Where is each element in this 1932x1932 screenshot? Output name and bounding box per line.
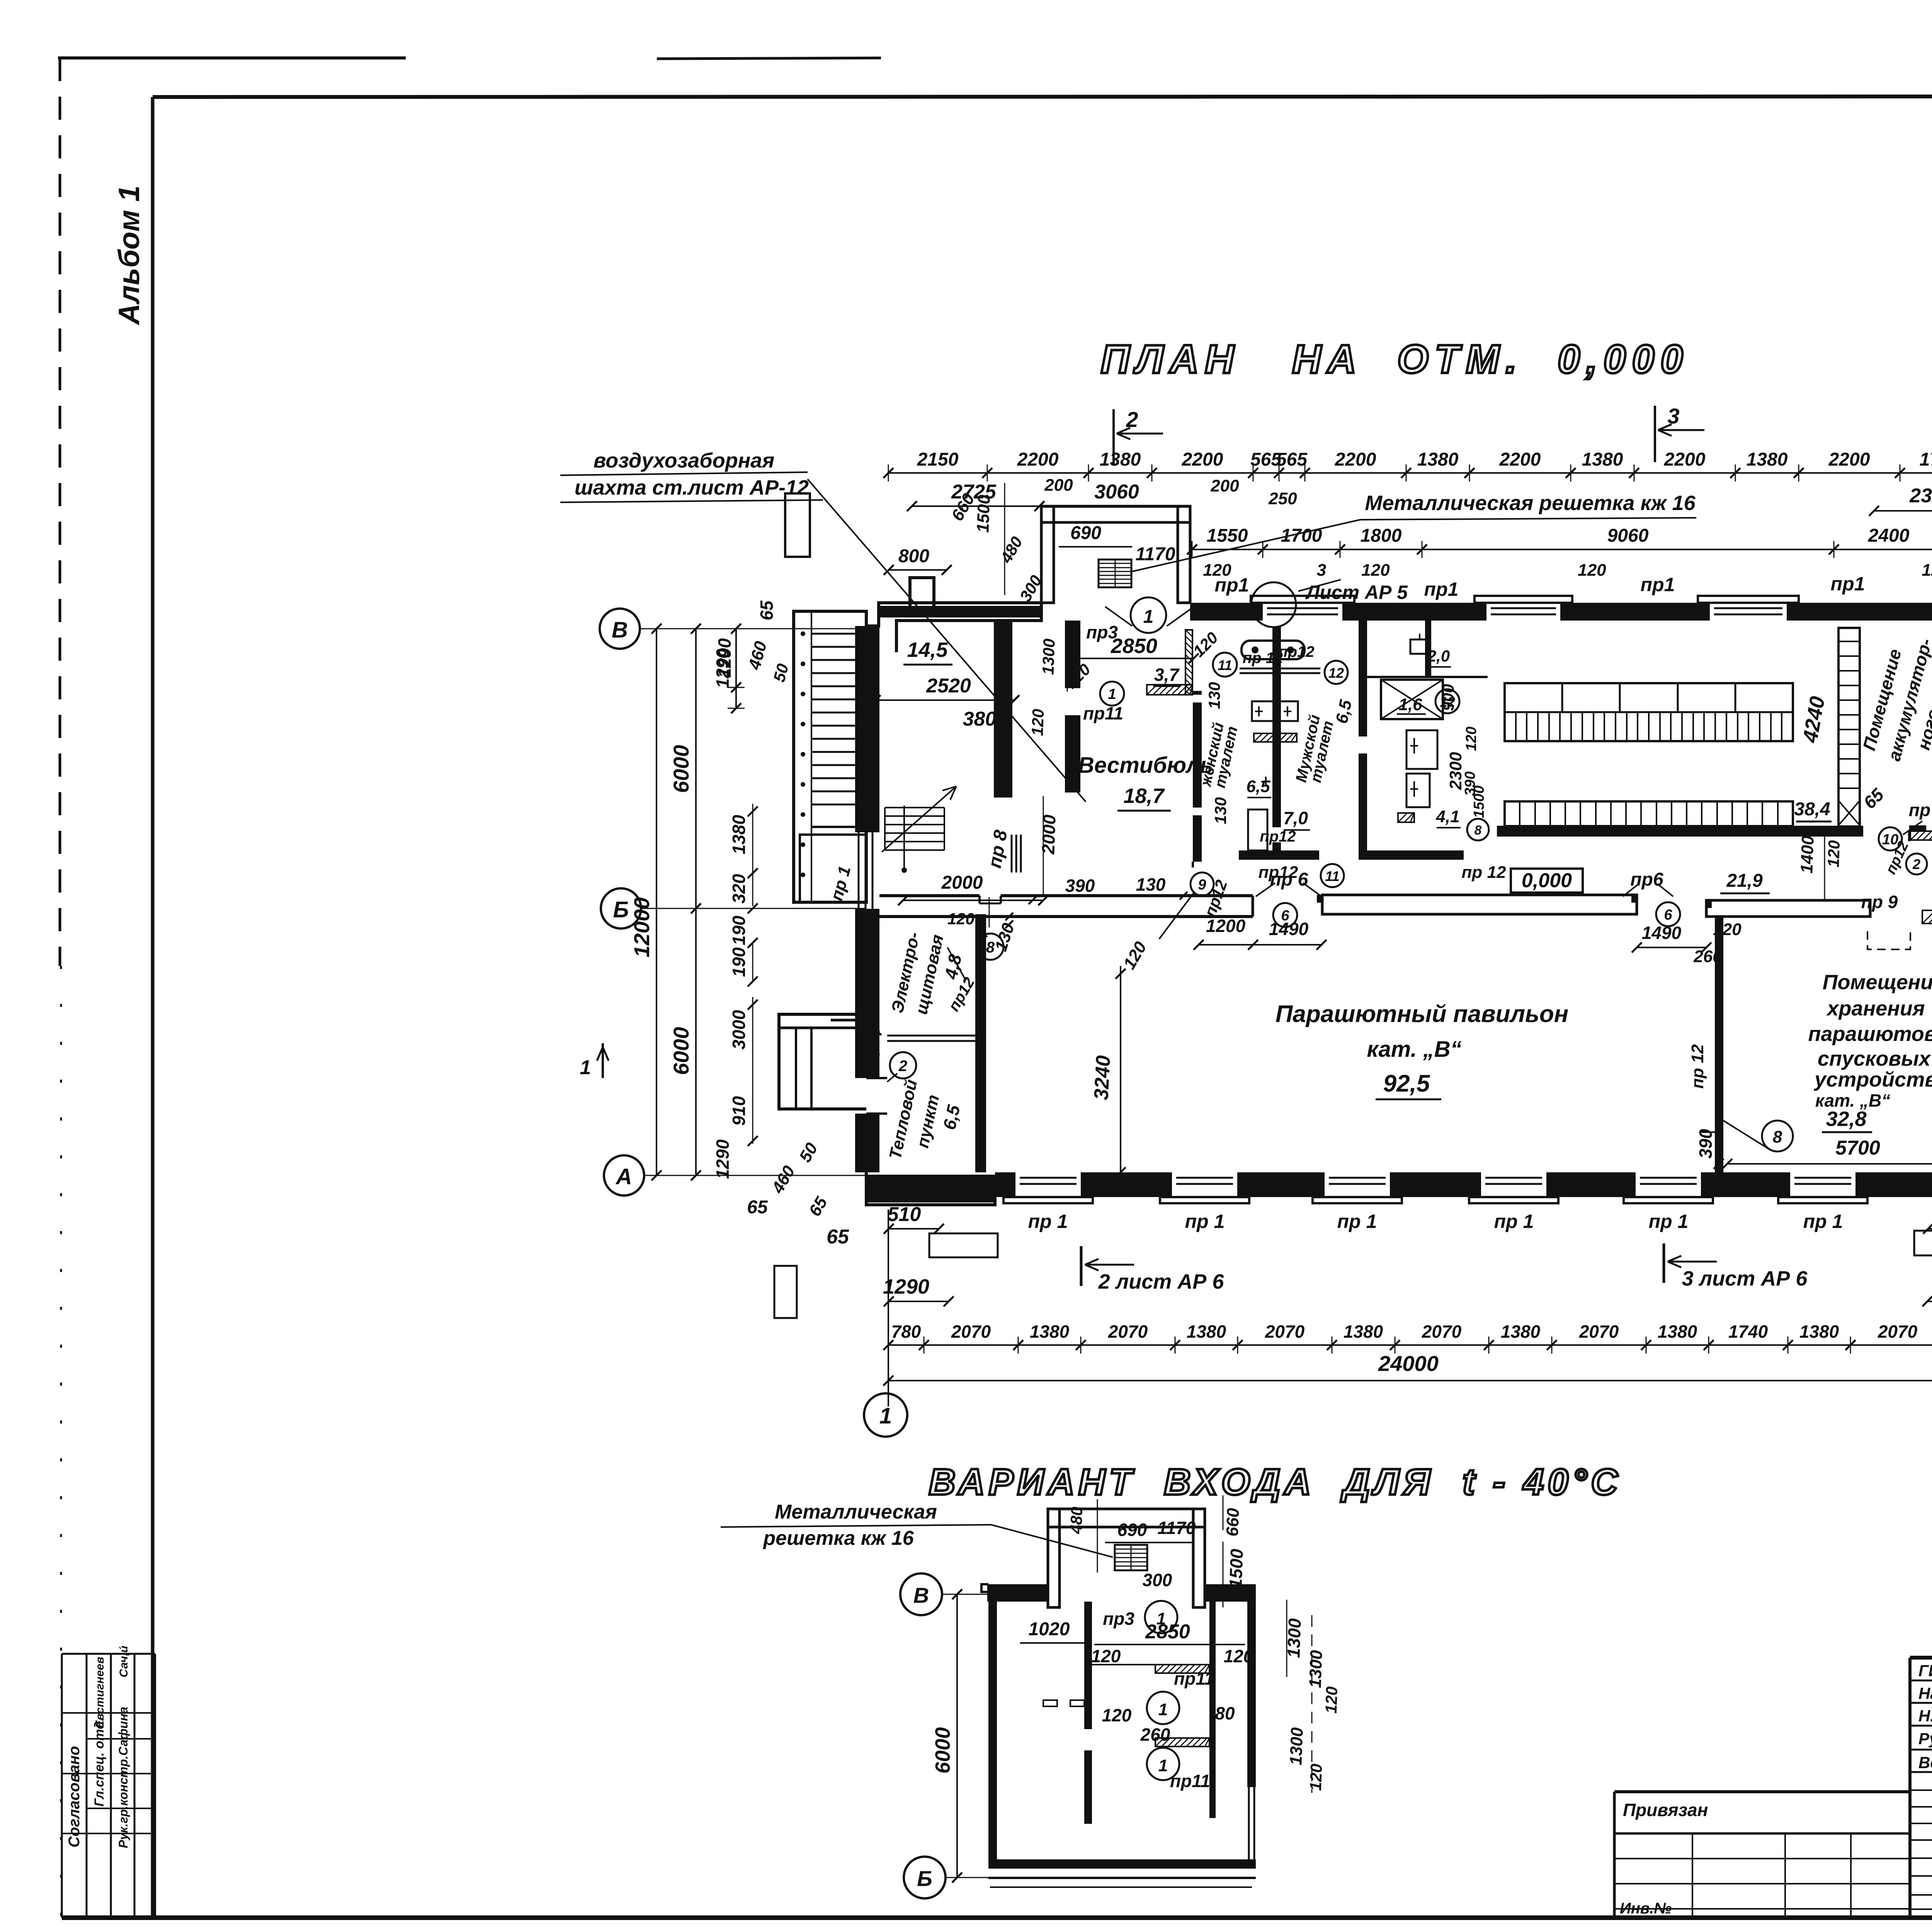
svg-text:1170: 1170 [1135,544,1175,565]
svg-text:устройств: устройств [1813,1068,1932,1091]
svg-text:120: 120 [1091,1646,1121,1666]
svg-text:3240: 3240 [1090,1055,1115,1101]
svg-text:Вестибюль: Вестибюль [1078,753,1213,778]
svg-text:2000: 2000 [941,872,983,893]
svg-text:1800: 1800 [1361,526,1402,546]
svg-text:1290: 1290 [883,1275,929,1298]
svg-text:390: 390 [1065,876,1095,896]
svg-text:190: 190 [729,947,749,977]
svg-text:1380: 1380 [1658,1321,1697,1342]
svg-text:120: 120 [1028,709,1047,736]
svg-text:ГИП: ГИП [1918,1662,1932,1680]
svg-text:1,6: 1,6 [1398,695,1422,714]
svg-text:2325: 2325 [1909,485,1932,507]
svg-text:1500: 1500 [1471,786,1487,818]
svg-text:120: 120 [1463,726,1480,751]
svg-text:1290: 1290 [713,1139,733,1179]
svg-text:9060: 9060 [1607,526,1649,546]
svg-text:2200: 2200 [1499,449,1541,470]
svg-text:пр 1: пр 1 [1494,1211,1534,1232]
svg-text:660: 660 [1223,1507,1243,1537]
svg-text:130: 130 [1211,797,1230,824]
svg-text:1750: 1750 [1920,449,1932,470]
svg-text:решетка кж 16: решетка кж 16 [762,1527,914,1549]
svg-text:190: 190 [729,915,749,945]
svg-text:800: 800 [898,546,929,566]
svg-text:1380: 1380 [1747,449,1788,470]
svg-text:11: 11 [1325,868,1339,884]
svg-text:6: 6 [1664,907,1672,923]
svg-text:1020: 1020 [1029,1619,1070,1639]
svg-text:Рук.гр.констр.Сафина: Рук.гр.констр.Сафина [116,1707,130,1848]
svg-text:120: 120 [1361,561,1390,580]
svg-text:парашютов и: парашютов и [1808,1022,1932,1046]
svg-text:6,5: 6,5 [1246,777,1270,796]
svg-text:480: 480 [1067,1507,1086,1535]
svg-text:900: 900 [1439,684,1457,711]
svg-text:1: 1 [1143,607,1154,627]
svg-text:780: 780 [891,1321,921,1342]
svg-text:1380: 1380 [1187,1321,1226,1342]
svg-text:Помещение: Помещение [1823,971,1932,994]
svg-text:Нач.отд.: Нач.отд. [1918,1684,1932,1702]
svg-text:2000: 2000 [1038,814,1060,855]
svg-text:65: 65 [827,1226,849,1248]
svg-text:ВАРИАНТ ВХОДА ДЛЯ t - 40°C: ВАРИАНТ ВХОДА ДЛЯ t - 40°C [929,1461,1622,1503]
svg-text:12000: 12000 [629,897,654,957]
svg-text:Привязан: Привязан [1623,1800,1708,1820]
svg-text:пр 1: пр 1 [1803,1211,1843,1232]
svg-text:120: 120 [1102,1705,1132,1725]
svg-text:120: 120 [1203,561,1231,580]
svg-text:кат. „В“: кат. „В“ [1367,1037,1461,1062]
svg-text:2 лист АР 6: 2 лист АР 6 [1098,1270,1225,1293]
svg-text:пр3: пр3 [1103,1609,1134,1629]
svg-text:1380: 1380 [1582,449,1623,470]
svg-text:ПЛАН НА ОТМ. 0,000: ПЛАН НА ОТМ. 0,000 [1101,337,1689,382]
svg-text:Б: Б [613,897,629,922]
svg-text:0,000: 0,000 [1522,869,1572,892]
svg-text:Инв.№: Инв.№ [1620,1900,1672,1917]
svg-text:5700: 5700 [1835,1137,1880,1159]
svg-text:8: 8 [1475,823,1482,838]
svg-text:130: 130 [1136,874,1166,895]
svg-text:1700: 1700 [1281,526,1322,546]
svg-text:2070: 2070 [1878,1321,1918,1342]
svg-text:Альбом 1: Альбом 1 [113,185,146,325]
svg-text:хранения: хранения [1826,997,1925,1020]
svg-text:2: 2 [1126,407,1138,432]
svg-text:910: 910 [729,1096,749,1126]
svg-text:12: 12 [1328,665,1344,681]
svg-text:1380: 1380 [1417,449,1459,470]
svg-text:пр12: пр12 [1278,643,1314,660]
svg-text:260: 260 [1140,1725,1170,1745]
svg-text:2200: 2200 [1828,449,1870,470]
svg-text:2150: 2150 [917,449,959,470]
svg-text:Металлическая решетка кж 16: Металлическая решетка кж 16 [1365,492,1696,515]
svg-text:Согласовано: Согласовано [66,1746,83,1848]
svg-text:2200: 2200 [1017,449,1059,470]
svg-text:1: 1 [1156,1609,1166,1628]
svg-text:Н.контр.: Н.контр. [1918,1707,1932,1725]
svg-text:4,1: 4,1 [1435,807,1459,826]
svg-text:120: 120 [947,910,975,928]
svg-text:200: 200 [1044,476,1073,495]
svg-text:2400: 2400 [1868,526,1910,546]
svg-text:1380: 1380 [1100,449,1141,470]
svg-text:В: В [913,1583,929,1607]
svg-text:120: 120 [1922,561,1932,580]
svg-text:Евстигнеев: Евстигнеев [94,1657,106,1728]
svg-text:120: 120 [1578,561,1606,580]
svg-text:1: 1 [1158,1700,1168,1719]
svg-text:3 лист АР 6: 3 лист АР 6 [1682,1267,1808,1290]
svg-text:2200: 2200 [1182,449,1223,470]
svg-text:1300: 1300 [1039,638,1058,675]
svg-text:1550: 1550 [1207,526,1248,546]
svg-text:3060: 3060 [1094,481,1139,503]
svg-text:2200: 2200 [1664,449,1706,470]
svg-text:пр 1: пр 1 [1028,1211,1068,1232]
svg-text:690: 690 [1070,523,1101,543]
svg-text:21,9: 21,9 [1726,871,1763,891]
svg-text:1380: 1380 [1030,1321,1070,1342]
svg-text:1300: 1300 [1306,1650,1326,1688]
svg-text:65: 65 [757,600,777,621]
svg-text:80: 80 [1215,1703,1235,1723]
svg-text:130: 130 [1205,682,1223,709]
svg-text:8: 8 [1773,1128,1782,1146]
svg-text:11: 11 [1218,657,1232,673]
svg-text:2070: 2070 [1265,1321,1305,1342]
svg-text:пр1: пр1 [1641,574,1675,595]
svg-text:1200: 1200 [1206,916,1246,936]
svg-text:7,0: 7,0 [1283,808,1308,828]
svg-text:200: 200 [1210,476,1239,495]
svg-text:1: 1 [1108,686,1116,702]
svg-text:2: 2 [898,1058,907,1075]
svg-text:пр 12: пр 12 [1688,1044,1707,1088]
svg-text:320: 320 [729,874,749,903]
svg-text:Металлическая: Металлическая [775,1501,937,1523]
svg-text:565: 565 [1276,449,1308,470]
svg-text:2: 2 [1912,856,1920,872]
svg-text:Рук.гр.: Рук.гр. [1918,1730,1932,1748]
svg-text:6000: 6000 [669,1027,693,1075]
svg-text:1: 1 [1158,1756,1168,1775]
svg-text:2070: 2070 [1108,1321,1148,1342]
svg-text:пр11: пр11 [1083,703,1123,723]
svg-text:1400: 1400 [1797,835,1817,874]
svg-text:пр 9: пр 9 [1861,892,1898,912]
svg-text:А: А [615,1164,632,1189]
svg-text:6000: 6000 [669,745,693,793]
svg-text:В: В [612,617,628,643]
svg-text:14,5: 14,5 [907,638,948,662]
svg-text:Б: Б [917,1866,932,1891]
svg-text:120: 120 [1824,840,1843,868]
svg-text:120: 120 [1306,1764,1325,1791]
svg-text:1: 1 [580,1056,591,1079]
svg-text:120: 120 [1322,1686,1341,1714]
svg-text:пр12: пр12 [1260,828,1296,845]
svg-text:пр 1: пр 1 [1649,1211,1689,1232]
svg-text:пр 12: пр 12 [1909,800,1932,820]
svg-text:2,0: 2,0 [1427,647,1450,665]
svg-text:38,4: 38,4 [1794,799,1830,820]
svg-text:1380: 1380 [729,815,749,854]
svg-text:1380: 1380 [1799,1321,1839,1342]
svg-text:120: 120 [1224,1646,1253,1666]
svg-text:пр 12: пр 12 [1462,863,1506,882]
svg-text:1380: 1380 [1501,1321,1541,1342]
svg-text:3000: 3000 [729,1010,749,1049]
svg-text:Гл.спец. отд.: Гл.спец. отд. [92,1718,107,1807]
svg-text:2520: 2520 [926,675,971,697]
svg-text:1490: 1490 [1642,923,1682,943]
svg-text:2070: 2070 [951,1321,991,1342]
svg-text:Парашютный павильон: Парашютный павильон [1276,1001,1568,1027]
svg-text:1170: 1170 [1158,1518,1196,1538]
svg-text:1490: 1490 [1269,919,1309,939]
svg-text:2070: 2070 [1422,1321,1462,1342]
svg-text:пр1: пр1 [1831,573,1865,595]
svg-text:3: 3 [1317,561,1326,580]
svg-text:18,7: 18,7 [1123,784,1165,808]
svg-text:24000: 24000 [1378,1351,1439,1376]
svg-text:воздухозаборная: воздухозаборная [594,449,774,472]
svg-text:шахта ст.лист АР-12: шахта ст.лист АР-12 [575,476,809,499]
svg-text:пр11: пр11 [1174,1668,1214,1689]
svg-text:3: 3 [1667,404,1679,428]
svg-text:65: 65 [747,1197,768,1218]
svg-text:380: 380 [963,708,997,730]
svg-text:пр 1: пр 1 [1337,1211,1377,1232]
svg-text:2200: 2200 [1335,449,1376,470]
svg-text:390: 390 [1696,1129,1716,1158]
svg-text:1740: 1740 [1728,1321,1768,1342]
svg-text:250: 250 [1268,489,1297,508]
svg-text:1290: 1290 [713,648,733,688]
svg-text:1: 1 [879,1403,892,1429]
svg-text:690: 690 [1117,1520,1147,1540]
svg-text:пр1: пр1 [1424,578,1459,600]
svg-text:2850: 2850 [1111,634,1157,658]
svg-text:спусковых: спусковых [1818,1047,1931,1070]
svg-text:1300: 1300 [1286,1727,1306,1765]
svg-text:пр12: пр12 [1259,863,1298,882]
svg-text:1500: 1500 [1225,1548,1247,1589]
svg-text:1380: 1380 [1344,1321,1383,1342]
svg-text:9: 9 [1198,877,1206,893]
svg-text:пр 12: пр 12 [1243,650,1283,667]
svg-text:Вед.инж.: Вед.инж. [1918,1753,1932,1772]
svg-text:3,7: 3,7 [1154,665,1180,685]
svg-text:6000: 6000 [931,1727,954,1774]
svg-text:пр 1: пр 1 [1185,1211,1225,1232]
svg-text:Сач,и́: Сач,и́ [117,1646,130,1677]
svg-text:2070: 2070 [1579,1321,1619,1342]
svg-text:510: 510 [888,1203,921,1226]
svg-text:пр11: пр11 [1170,1771,1210,1791]
svg-text:300: 300 [1143,1570,1172,1590]
svg-text:92,5: 92,5 [1383,1070,1430,1097]
svg-text:32,8: 32,8 [1826,1107,1866,1131]
